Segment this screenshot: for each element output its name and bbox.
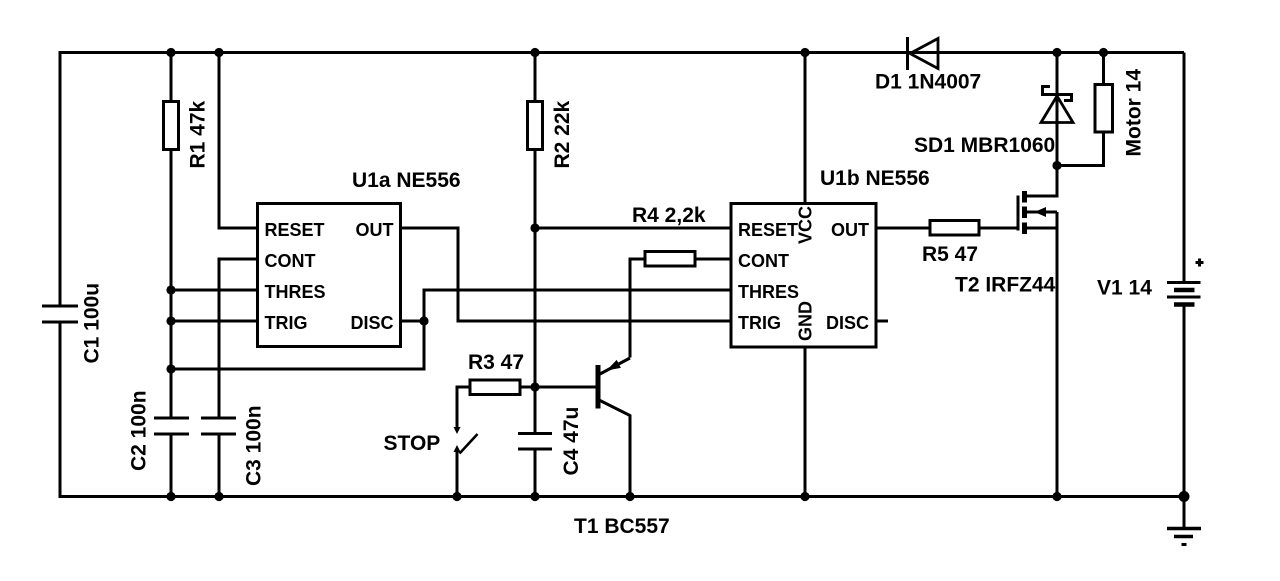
svg-text:C3 100n: C3 100n	[243, 405, 266, 486]
svg-text:OUT: OUT	[356, 220, 394, 240]
svg-text:C4 47u: C4 47u	[560, 407, 583, 476]
svg-text:R1 47k: R1 47k	[187, 100, 210, 168]
svg-text:RESET: RESET	[265, 220, 325, 240]
svg-text:GND: GND	[796, 301, 816, 341]
svg-text:RESET: RESET	[738, 220, 798, 240]
svg-text:T2 IRFZ44: T2 IRFZ44	[955, 274, 1056, 297]
svg-text:CONT: CONT	[265, 251, 316, 271]
svg-text:CONT: CONT	[738, 251, 789, 271]
svg-text:THRES: THRES	[738, 282, 799, 302]
svg-text:R3 47: R3 47	[468, 351, 524, 374]
svg-text:C1 100u: C1 100u	[81, 283, 104, 364]
svg-text:VCC: VCC	[796, 206, 816, 244]
svg-text:U1a NE556: U1a NE556	[352, 169, 461, 192]
svg-text:U1b NE556: U1b NE556	[820, 167, 930, 190]
svg-text:STOP: STOP	[384, 432, 441, 455]
svg-text:R4 2,2k: R4 2,2k	[632, 204, 706, 227]
svg-text:Motor 14: Motor 14	[1123, 69, 1146, 157]
svg-text:T1 BC557: T1 BC557	[574, 515, 670, 538]
svg-text:DISC: DISC	[826, 313, 869, 333]
svg-text:D1 1N4007: D1 1N4007	[875, 71, 981, 94]
svg-text:SD1 MBR1060: SD1 MBR1060	[914, 134, 1055, 157]
svg-text:C2 100n: C2 100n	[128, 390, 151, 471]
svg-text:DISC: DISC	[350, 313, 393, 333]
svg-text:R5 47: R5 47	[922, 243, 978, 266]
svg-text:OUT: OUT	[831, 220, 869, 240]
svg-text:TRIG: TRIG	[738, 313, 781, 333]
svg-text:THRES: THRES	[265, 282, 326, 302]
svg-text:R2 22k: R2 22k	[551, 100, 574, 168]
svg-text:V1 14: V1 14	[1097, 277, 1152, 300]
svg-text:TRIG: TRIG	[265, 313, 308, 333]
